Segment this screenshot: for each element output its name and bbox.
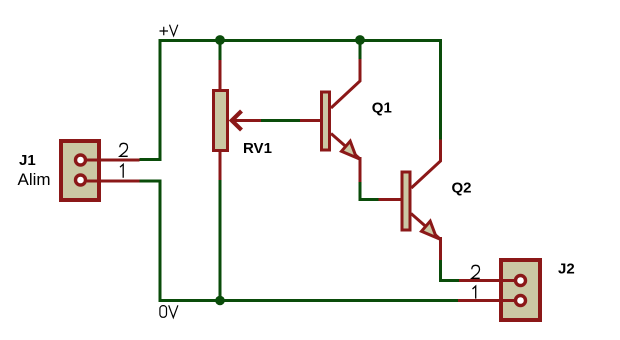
svg-text:J2: J2 (558, 260, 575, 277)
svg-text:Alim: Alim (18, 170, 51, 189)
wire RV1 top stub (219, 41, 222, 61)
pin number 2 of J2 (472, 265, 480, 278)
pin number 1 of J1 (120, 164, 123, 178)
svg-text:Q1: Q1 (372, 100, 392, 117)
transistor Q1 base pin (300, 119, 320, 122)
transistor Q1 collector (331, 59, 360, 108)
connector J1 pin 1 pad (76, 175, 86, 185)
junction dot at +V and Q1 collector (355, 35, 365, 45)
transistor Q2 base pin (379, 198, 401, 201)
transistor Q1 emitter (331, 134, 360, 183)
junction dot at 0V and RV1 (215, 296, 225, 306)
potentiometer RV1 bottom pin (219, 152, 222, 180)
transistor Q1 base bar (322, 92, 330, 150)
potentiometer RV1 wiper arrow (232, 111, 261, 130)
net label +V (160, 25, 178, 36)
svg-text:J1: J1 (19, 152, 36, 169)
transistor Q2 emitter arrow (422, 221, 437, 237)
wire RV1 wiper to Q1 base (261, 119, 300, 122)
junction dot at +V and RV1 (215, 35, 225, 45)
connector J1 pin 2 pad (76, 155, 86, 165)
wire Q2 emitter to J2 pin 2 (441, 259, 460, 281)
svg-text:Q2: Q2 (452, 179, 472, 196)
wire +V top rail (159, 41, 441, 141)
connector J2 pin 1 pad (516, 296, 526, 306)
wire Q1 collector stub (359, 41, 362, 61)
transistor Q2 base bar (402, 172, 410, 230)
transistor Q2 collector (411, 140, 440, 189)
potentiometer RV1 top pin (219, 60, 222, 89)
connector J1 body (61, 141, 140, 200)
connector J2 body (458, 260, 540, 320)
svg-text:RV1: RV1 (243, 140, 272, 157)
wire left +V drop to J1 pin 2 (140, 41, 161, 160)
connector J2 pin 2 pad (516, 276, 526, 286)
pin number 1 of J2 (473, 286, 476, 299)
wire RV1 bottom to 0V rail (219, 180, 222, 301)
pin number 2 of J1 (120, 143, 128, 156)
potentiometer RV1 body (214, 91, 228, 151)
transistor Q2 emitter (411, 214, 441, 261)
wire Q1 emitter to Q2 base (360, 181, 379, 200)
transistor Q1 emitter arrow (342, 141, 357, 157)
wire J1 pin 1 to 0V rail (140, 181, 459, 301)
net label 0V (160, 305, 178, 317)
